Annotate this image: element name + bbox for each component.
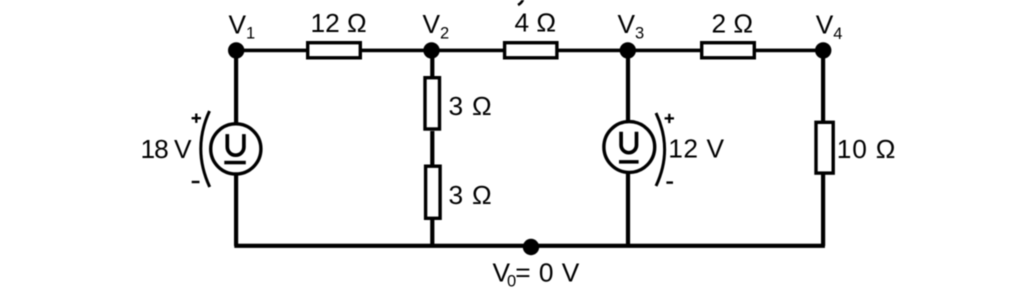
wire V3 down to source U2: [626, 50, 630, 122]
wire V4 down to resistor 10ohm: [821, 50, 825, 123]
resistor R4 3 ohm upper (V2 branch): [425, 78, 440, 129]
wire lower 3ohm resistor to bottom rail: [430, 218, 434, 246]
resistor R1 12 ohm (V1-V2): [308, 43, 361, 58]
U2 minus sign: [666, 181, 673, 183]
svg-text:3: 3: [635, 24, 644, 42]
wire top rail V1-V4: [234, 49, 824, 53]
svg-text:18 V: 18 V: [141, 134, 193, 164]
U2 polarity arc: [656, 113, 665, 186]
resistor R2 4 ohm (V2-V3): [505, 43, 557, 58]
resistor R5 3 ohm lower (V2 branch): [426, 166, 441, 218]
svg-text:V: V: [423, 9, 441, 39]
node V3: [620, 42, 636, 58]
node V2: [423, 42, 439, 58]
U1 plus sign: [192, 114, 201, 123]
resistor R3 2 ohm (V3-V4): [702, 43, 755, 58]
U2 underline: [619, 160, 639, 164]
wire V2 down to resistor 3ohm upper: [430, 50, 434, 78]
svg-text:3 Ω: 3 Ω: [449, 180, 493, 210]
svg-text:1: 1: [246, 25, 255, 43]
svg-text:2: 2: [440, 24, 449, 42]
wire bottom rail: [234, 244, 825, 248]
U2 plus sign: [665, 114, 674, 123]
resistor R6 10 ohm (V4 branch): [816, 122, 833, 173]
svg-text:V: V: [816, 10, 834, 40]
node V4: [815, 42, 831, 58]
voltage source U1 circle: [211, 124, 261, 174]
svg-text:12 Ω: 12 Ω: [311, 8, 367, 38]
wire source U2 down to bottom rail: [626, 172, 630, 246]
U1 minus sign: [192, 181, 200, 183]
wire source U1 down to bottom rail: [234, 173, 238, 246]
svg-text:2 Ω: 2 Ω: [712, 9, 754, 39]
node V1: [228, 42, 244, 58]
U1 letter U: [227, 134, 244, 155]
cropped parenthesis tail from caption above: [518, 0, 524, 5]
wire resistor 10ohm to bottom rail: [821, 172, 825, 246]
svg-text:4: 4: [833, 25, 842, 43]
node V0 (reference): [523, 239, 539, 255]
svg-text:= 0 V: = 0 V: [515, 258, 580, 288]
svg-text:12 V: 12 V: [668, 134, 725, 164]
wire V1 down to source U1: [234, 50, 238, 124]
U1 underline: [224, 161, 246, 165]
wire between the two 3ohm resistors: [430, 131, 434, 166]
U1 polarity arc: [201, 111, 210, 187]
U2 letter U: [621, 132, 636, 153]
voltage source U2 circle: [604, 122, 655, 173]
svg-text:V: V: [618, 9, 636, 39]
svg-text:V: V: [229, 10, 247, 40]
svg-text:10 Ω: 10 Ω: [837, 134, 896, 164]
svg-text:4 Ω: 4 Ω: [515, 8, 557, 38]
svg-text:3 Ω: 3 Ω: [449, 91, 493, 121]
